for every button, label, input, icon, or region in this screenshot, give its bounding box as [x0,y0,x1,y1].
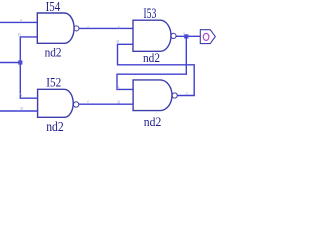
wire feedback I53 output down and left to bottom-right nand pin A [117,36,186,89]
svg-text:nd2: nd2 [45,45,62,60]
wire I52 output to bottom-right nand pin B [79,103,133,105]
svg-text:z: z [87,99,89,104]
nand gate bottom-right output bubble [172,93,177,98]
wire net C from left edge to I52 pin B [0,110,38,112]
svg-text:A: A [19,92,23,97]
output port name Q [203,33,209,40]
nand gate bottom-right body [133,80,172,111]
junction on net B [18,60,22,64]
svg-text:I54: I54 [46,0,61,15]
output port symbol [200,30,215,44]
svg-text:nd2: nd2 [144,114,162,129]
svg-text:nd2: nd2 [46,120,64,132]
nand gate I53 body [133,20,171,51]
nand gate I52 output bubble [73,102,78,107]
nand gate I53 output bubble [171,33,176,38]
wire net A from left edge to I54 pin A [0,21,37,23]
svg-text:z: z [186,90,188,95]
svg-text:B: B [116,39,119,44]
nand gate I52 body [38,89,74,117]
svg-text:B: B [20,106,23,111]
wire feedback bottom-right nand output up and left to I53 pin B [118,44,195,95]
nand gate I54 body [37,13,74,43]
wire I54 output to I53 pin A [79,27,133,29]
svg-text:B: B [18,32,21,37]
svg-text:I52: I52 [46,75,61,90]
junction on I53 output net [184,34,188,38]
nand gate I54 output bubble [74,26,79,31]
wire net B vertical with branches to I54 pin B and I52 pin A [20,37,37,98]
svg-text:I53: I53 [143,6,156,22]
wire net B from left edge to junction [0,62,20,64]
svg-text:nd2: nd2 [143,50,160,65]
svg-text:z: z [87,24,89,29]
svg-text:B: B [117,99,120,104]
wire I53 output to output port [176,35,200,37]
